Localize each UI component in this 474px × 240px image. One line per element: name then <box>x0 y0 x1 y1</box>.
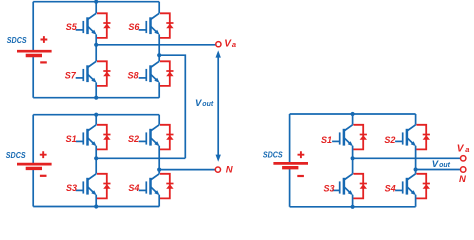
svg-text:SDCS: SDCS <box>263 149 283 159</box>
svg-text:N: N <box>459 174 467 185</box>
wire: right bridge left DC wire (lower) <box>289 168 291 207</box>
node: bottom cell bottom rail / left leg <box>94 204 98 208</box>
svg-text:V: V <box>432 159 439 170</box>
transistor S4 (right bridge) <box>395 174 430 199</box>
svg-text:S5: S5 <box>66 22 78 32</box>
wire: right bridge mid rail to Va terminal <box>353 157 461 159</box>
wire: right bridge left leg segments <box>352 114 354 207</box>
wire: right bridge left DC wire (upper) <box>289 114 291 163</box>
wire: bottom cell mid rail joining cascade wire <box>96 157 185 159</box>
battery plus sign (right bridge) <box>298 151 305 158</box>
wire: bottom cell left leg segments <box>95 115 97 207</box>
transistor S2 (right bridge) <box>395 125 430 150</box>
battery minus sign (right bridge) <box>297 175 304 177</box>
svg-text:SDCS: SDCS <box>7 35 27 45</box>
transistor S3 (IGBT + freewheel diode) <box>76 174 111 199</box>
node: N tap on right leg <box>157 168 161 172</box>
terminal Va (left circuit, open circle) <box>216 42 221 47</box>
wire: bottom cell bottom rail <box>33 206 159 208</box>
transistor S2 (IGBT + freewheel diode) <box>139 125 174 150</box>
battery SDCS (right bridge) <box>273 163 308 167</box>
svg-text:S2: S2 <box>128 134 139 144</box>
terminal Va (right bridge, open circle) <box>461 156 466 161</box>
transistor S8 (IGBT + freewheel diode) <box>139 61 174 86</box>
wire: top cell left DC wire (upper) <box>32 2 34 51</box>
node: right bridge N tap on right leg <box>414 167 418 171</box>
battery minus sign (top cell) <box>40 61 47 63</box>
svg-text:a: a <box>232 40 236 49</box>
svg-text:S8: S8 <box>128 71 139 81</box>
transistor S5 (IGBT + freewheel diode) <box>76 13 111 38</box>
svg-text:S3: S3 <box>66 183 77 193</box>
svg-text:V: V <box>195 98 202 109</box>
wire: N output tap from right leg <box>159 169 215 171</box>
wire: top cell bottom rail <box>33 97 159 99</box>
svg-text:S2: S2 <box>384 135 395 145</box>
battery plus sign (top cell) <box>41 36 48 43</box>
svg-text:S4: S4 <box>128 183 139 193</box>
node: bottom rail / left leg junction <box>94 96 98 100</box>
wire: cascade connection from S6/S8 leg down to lower cell output <box>159 55 185 158</box>
node: top rail / left leg junction <box>94 0 98 4</box>
transistor S6 (IGBT + freewheel diode) <box>139 13 174 38</box>
node: bottom cell top rail / left leg <box>94 113 98 117</box>
node: bottom cell mid rail / left leg <box>94 156 98 160</box>
svg-text:out: out <box>439 162 451 169</box>
Vout measurement arrow (double headed, between Va and N) <box>217 57 219 157</box>
battery minus sign (bottom cell) <box>40 175 47 177</box>
svg-text:S3: S3 <box>324 183 335 193</box>
wire: right bridge top rail <box>290 113 416 115</box>
transistor S4 (IGBT + freewheel diode) <box>139 174 174 199</box>
svg-text:S4: S4 <box>385 183 396 193</box>
node: right bridge mid rail / left leg <box>351 156 355 160</box>
wire: top cell right leg segments <box>158 2 160 98</box>
terminal N (right bridge, open circle) <box>461 167 466 172</box>
transistor S1 (right bridge) <box>332 125 367 150</box>
node: mid rail / left leg junction <box>94 43 98 47</box>
wire: bottom cell left DC wire (lower) <box>32 169 34 207</box>
node: cascade tap on right leg <box>157 53 161 57</box>
wire: top cell top rail <box>33 1 159 3</box>
wire: right bridge N tap <box>416 169 461 171</box>
terminal N (left circuit, open circle) <box>215 167 220 172</box>
wire: bottom cell right leg segments <box>158 115 160 207</box>
svg-text:SDCS: SDCS <box>6 150 26 160</box>
wire: right bridge right leg segments <box>415 114 417 207</box>
svg-text:V: V <box>457 144 465 155</box>
wire: bottom cell left DC wire (upper) <box>32 115 34 164</box>
node: right bridge top rail / left leg <box>351 112 355 116</box>
node: right bridge bottom rail / left leg <box>351 205 355 209</box>
wire: top cell mid rail to Va terminal <box>96 44 215 46</box>
wire: top cell left DC wire (lower) <box>32 56 34 98</box>
transistor S1 (IGBT + freewheel diode) <box>76 125 111 150</box>
svg-text:out: out <box>202 101 214 108</box>
svg-text:a: a <box>465 145 469 154</box>
battery SDCS (bottom cell) <box>17 164 52 168</box>
svg-text:S1: S1 <box>321 135 332 145</box>
svg-text:S1: S1 <box>66 134 77 144</box>
transistor S7 (IGBT + freewheel diode) <box>76 61 111 86</box>
svg-text:S7: S7 <box>65 71 77 81</box>
wire: top cell left leg segments <box>95 2 97 98</box>
svg-text:N: N <box>226 165 234 176</box>
svg-text:S6: S6 <box>128 22 140 32</box>
wire: right bridge bottom rail <box>290 206 416 208</box>
transistor S3 (right bridge) <box>332 174 367 199</box>
battery plus sign (bottom cell) <box>40 151 47 158</box>
battery SDCS (top cell) <box>17 51 52 55</box>
wire: bottom cell top rail <box>33 114 159 116</box>
